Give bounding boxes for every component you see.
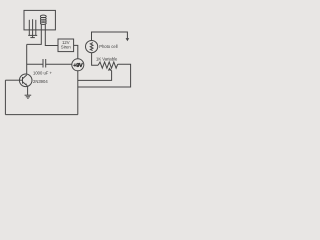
wire: photocell bottom to resistor (92, 53, 99, 65)
wiper arrow (to 1K variable) (126, 38, 130, 41)
battery B1 (+9V) (72, 59, 84, 71)
svg-text:1K Variable: 1K Variable (96, 57, 118, 62)
resistor wiper arm (78, 70, 112, 81)
wire: emitter vertical (27, 86, 29, 95)
relay K1 box (24, 10, 55, 30)
transistor Q1 2N3904 (19, 74, 32, 87)
photocell PC1 (86, 41, 98, 53)
capacitor C1 plates (42, 59, 44, 68)
relay contact leads (29, 19, 36, 37)
wire: left rail (4, 80, 6, 114)
wire: base wire (5, 79, 19, 81)
svg-text:2N3904: 2N3904 (33, 79, 48, 84)
wire: battery bottom vertical (77, 71, 79, 115)
wire: resistor right end down (78, 64, 131, 87)
wire: coil lead B to siren (45, 24, 58, 46)
svg-text:+9V: +9V (73, 63, 83, 69)
wire: siren to battery top (74, 45, 78, 59)
svg-text:Photo cell: Photo cell (99, 44, 117, 49)
ground (relay contacts) (28, 35, 37, 37)
resistor R1 1K variable zigzag (98, 62, 118, 68)
wire: coil lead A to collector node (27, 24, 42, 45)
siren box (58, 39, 74, 52)
wire: photocell top to wiper arrow (92, 32, 128, 41)
wire: bottom rail (5, 114, 77, 116)
relay coil (40, 15, 46, 24)
svg-text:1000 uF +: 1000 uF + (33, 71, 53, 76)
svg-text:Siren: Siren (61, 44, 71, 49)
capacitor C1 wire right (46, 63, 72, 65)
ground (emitter) (25, 95, 32, 98)
wire: collector vertical (26, 44, 28, 74)
capacitor C1 wire left (27, 63, 43, 65)
